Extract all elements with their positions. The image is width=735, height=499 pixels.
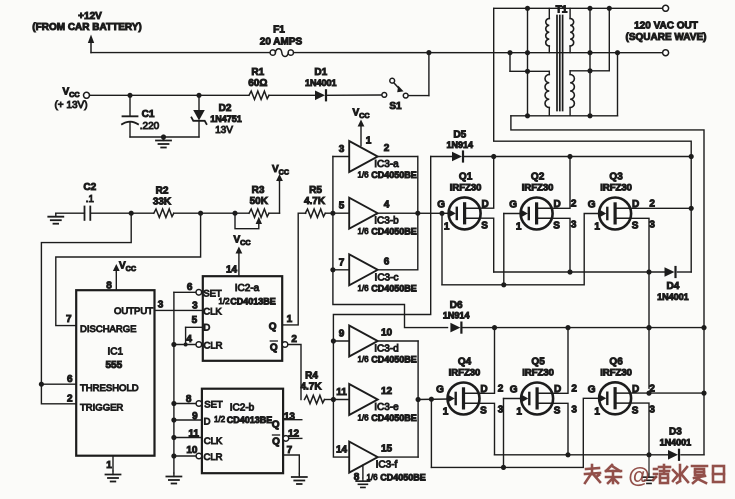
svg-text:DISCHARGE: DISCHARGE — [80, 324, 136, 335]
svg-text:33K: 33K — [153, 197, 172, 208]
svg-text:13: 13 — [284, 412, 296, 423]
svg-text:R1: R1 — [251, 67, 264, 78]
svg-text:C1: C1 — [142, 109, 155, 120]
svg-text:2: 2 — [571, 199, 577, 210]
svg-text:4: 4 — [384, 200, 390, 211]
svg-text:S: S — [481, 220, 488, 231]
svg-text:3: 3 — [192, 300, 198, 311]
svg-text:CLK: CLK — [203, 307, 222, 318]
svg-text:6: 6 — [67, 374, 73, 385]
svg-text:SET: SET — [204, 400, 223, 411]
svg-text:S: S — [632, 221, 639, 232]
svg-text:10: 10 — [381, 328, 393, 339]
svg-text:G: G — [588, 384, 596, 395]
svg-text:Q2: Q2 — [531, 172, 545, 183]
svg-text:S: S — [632, 405, 639, 416]
svg-text:S: S — [553, 221, 560, 232]
svg-text:1N4001: 1N4001 — [660, 438, 692, 448]
svg-text:15: 15 — [381, 444, 393, 455]
svg-text:1: 1 — [366, 136, 372, 147]
svg-text:1: 1 — [594, 222, 600, 233]
svg-text:CD4050BE: CD4050BE — [371, 170, 417, 180]
svg-text:C2: C2 — [83, 182, 96, 193]
svg-text:(FROM CAR BATTERY): (FROM CAR BATTERY) — [32, 22, 141, 33]
svg-text:THRESHOLD: THRESHOLD — [80, 383, 139, 394]
svg-text:1: 1 — [516, 222, 522, 233]
svg-text:+12V: +12V — [78, 11, 102, 22]
svg-text:7: 7 — [66, 314, 72, 325]
svg-text:3: 3 — [649, 220, 655, 231]
svg-text:1N4751: 1N4751 — [210, 114, 242, 124]
svg-text:2: 2 — [291, 334, 297, 345]
svg-text:IRFZ30: IRFZ30 — [522, 368, 554, 379]
svg-text:G: G — [509, 200, 517, 211]
svg-text:.1: .1 — [86, 194, 95, 205]
svg-text:Q: Q — [272, 420, 280, 431]
svg-text:1: 1 — [444, 221, 450, 232]
svg-text:IC3-a: IC3-a — [374, 159, 399, 170]
svg-text:3: 3 — [571, 405, 577, 416]
svg-text:1/6: 1/6 — [366, 473, 378, 482]
svg-text:20 AMPS: 20 AMPS — [260, 37, 303, 48]
svg-text:11: 11 — [336, 387, 347, 398]
svg-text:4: 4 — [186, 334, 192, 345]
svg-text:Q6: Q6 — [609, 356, 623, 367]
svg-text:D1: D1 — [314, 67, 327, 78]
svg-text:CD4050BE: CD4050BE — [371, 355, 417, 365]
svg-text:G: G — [437, 199, 445, 210]
svg-text:IC1: IC1 — [108, 347, 124, 358]
svg-text:S: S — [554, 406, 561, 417]
svg-text:IRFZ30: IRFZ30 — [522, 183, 554, 194]
svg-text:IRFZ30: IRFZ30 — [449, 368, 481, 379]
svg-text:1: 1 — [287, 314, 293, 325]
svg-text:G: G — [588, 200, 596, 211]
svg-text:60Ω: 60Ω — [248, 78, 267, 89]
svg-text:D6: D6 — [450, 300, 463, 311]
svg-text:Q4: Q4 — [458, 357, 472, 368]
svg-text:1/2: 1/2 — [214, 415, 226, 424]
svg-text:D: D — [204, 417, 211, 428]
svg-text:CD4013BE: CD4013BE — [230, 296, 276, 306]
svg-text:1/6: 1/6 — [357, 355, 369, 364]
svg-text:CLR: CLR — [203, 341, 222, 352]
svg-text:CD4050BE: CD4050BE — [371, 283, 417, 293]
svg-text:1N4001: 1N4001 — [657, 292, 689, 302]
svg-text:Q3: Q3 — [609, 172, 623, 183]
svg-text:12: 12 — [381, 386, 393, 397]
svg-text:S: S — [480, 406, 487, 417]
svg-text:IC2-b: IC2-b — [230, 403, 255, 414]
svg-text:1: 1 — [443, 407, 449, 418]
svg-text:3: 3 — [158, 300, 164, 311]
svg-text:.220: .220 — [140, 121, 160, 132]
svg-text:IC3-b: IC3-b — [374, 216, 399, 227]
svg-text:1/6: 1/6 — [357, 171, 369, 180]
svg-text:8: 8 — [106, 280, 112, 291]
svg-text:R4: R4 — [305, 371, 318, 382]
svg-text:2: 2 — [498, 384, 504, 395]
svg-text:1: 1 — [594, 406, 600, 417]
svg-text:SET: SET — [203, 289, 222, 300]
svg-text:OUTPUT: OUTPUT — [114, 306, 153, 317]
svg-text:4.7K: 4.7K — [300, 382, 322, 393]
svg-text:CD4013BE: CD4013BE — [227, 415, 273, 425]
svg-text:D2: D2 — [219, 103, 232, 114]
svg-text:IC3-d: IC3-d — [374, 344, 398, 355]
svg-text:@: @ — [628, 463, 649, 488]
svg-text:D5: D5 — [453, 129, 466, 140]
svg-text:CLK: CLK — [204, 436, 223, 447]
svg-text:TRIGGER: TRIGGER — [80, 402, 123, 413]
svg-text:1N914: 1N914 — [447, 140, 474, 150]
svg-text:IRFZ30: IRFZ30 — [600, 183, 632, 194]
svg-text:IC2-a: IC2-a — [235, 283, 260, 294]
svg-text:6: 6 — [384, 256, 390, 267]
svg-text:Q: Q — [272, 437, 280, 448]
svg-text:555: 555 — [105, 360, 122, 371]
svg-text:14: 14 — [336, 445, 348, 456]
svg-text:R3: R3 — [252, 185, 265, 196]
svg-text:D4: D4 — [667, 281, 680, 292]
svg-text:F1: F1 — [273, 25, 285, 36]
svg-text:CD4050BE: CD4050BE — [371, 227, 417, 237]
svg-text:13V: 13V — [215, 125, 233, 136]
svg-text:1N4001: 1N4001 — [305, 78, 337, 88]
svg-text:IC3-c: IC3-c — [375, 272, 399, 283]
svg-text:IRFZ30: IRFZ30 — [450, 182, 482, 193]
svg-text:2: 2 — [67, 394, 73, 405]
svg-text:3: 3 — [339, 144, 345, 155]
svg-text:Q: Q — [270, 343, 278, 354]
svg-text:D: D — [203, 323, 210, 334]
svg-text:S1: S1 — [389, 101, 402, 112]
svg-text:R5: R5 — [309, 185, 322, 196]
svg-text:R2: R2 — [156, 186, 169, 197]
svg-text:7: 7 — [339, 257, 345, 268]
svg-text:1: 1 — [516, 407, 522, 418]
svg-text:IRFZ30: IRFZ30 — [600, 367, 632, 378]
svg-text:5: 5 — [192, 315, 198, 326]
svg-text:CD4050BE: CD4050BE — [371, 413, 417, 423]
svg-text:(SQUARE WAVE): (SQUARE WAVE) — [626, 32, 707, 43]
svg-text:1/6: 1/6 — [357, 284, 369, 293]
svg-text:9: 9 — [339, 329, 345, 340]
svg-text:3: 3 — [571, 220, 577, 231]
svg-text:6: 6 — [187, 282, 193, 293]
svg-text:Q1: Q1 — [459, 171, 473, 182]
svg-text:1N914: 1N914 — [443, 311, 470, 321]
svg-text:CLR: CLR — [203, 452, 222, 463]
svg-text:G: G — [510, 385, 518, 396]
svg-text:IC3-e: IC3-e — [374, 402, 399, 413]
svg-text:CD4050BE: CD4050BE — [380, 473, 426, 483]
svg-text:14: 14 — [226, 265, 238, 276]
svg-text:5: 5 — [339, 201, 345, 212]
svg-text:50K: 50K — [250, 196, 269, 207]
svg-text:D3: D3 — [669, 427, 682, 438]
svg-text:1: 1 — [106, 460, 112, 471]
svg-text:3: 3 — [649, 404, 655, 415]
svg-text:4.7K: 4.7K — [304, 196, 326, 207]
svg-text:G: G — [436, 385, 444, 396]
svg-text:12: 12 — [288, 428, 300, 439]
svg-text:1/6: 1/6 — [357, 414, 369, 423]
svg-text:IC3-f: IC3-f — [376, 460, 398, 471]
svg-text:1/6: 1/6 — [357, 227, 369, 236]
svg-text:Q: Q — [269, 322, 277, 333]
svg-text:Q5: Q5 — [531, 357, 545, 368]
svg-text:2: 2 — [384, 143, 390, 154]
svg-text:2: 2 — [571, 384, 577, 395]
svg-text:3: 3 — [498, 405, 504, 416]
svg-text:T1: T1 — [556, 4, 568, 15]
svg-text:120 VAC OUT: 120 VAC OUT — [634, 20, 698, 31]
svg-text:(+ 13V): (+ 13V) — [54, 100, 87, 111]
